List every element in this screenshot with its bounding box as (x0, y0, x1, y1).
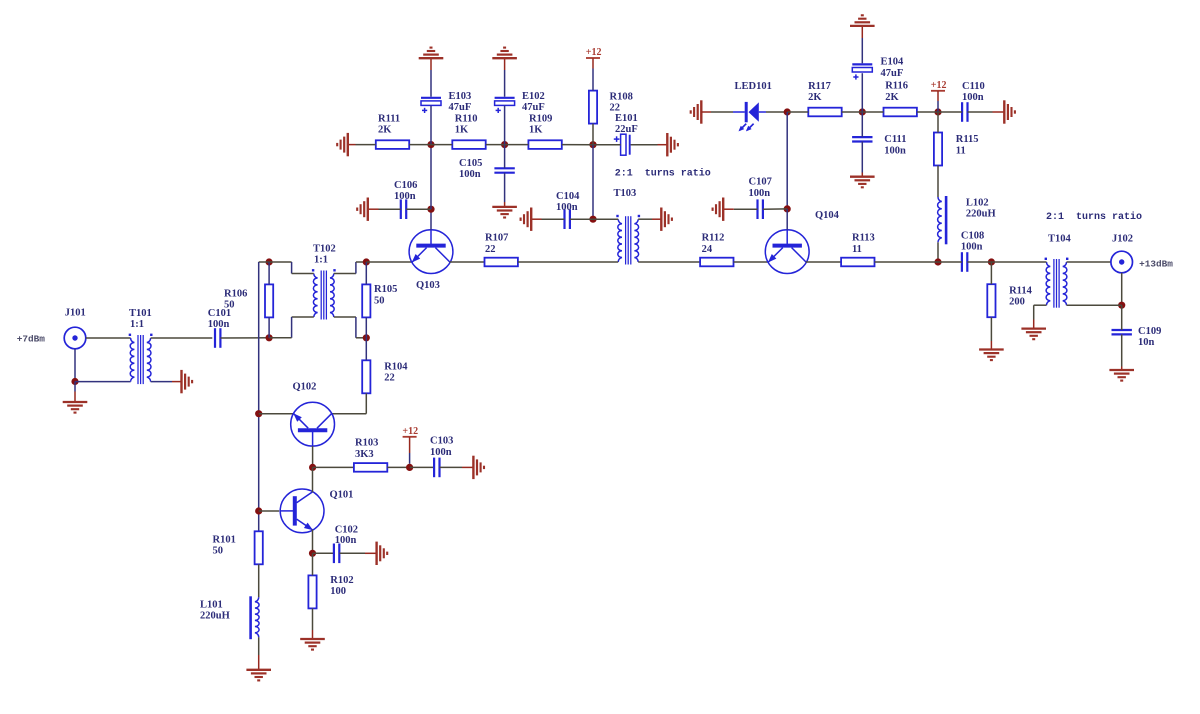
ground ground left of C104 (521, 208, 532, 231)
svg-text:L101: L101 (200, 599, 223, 610)
svg-text:C102: C102 (335, 525, 358, 536)
ground ground below C111 (850, 177, 875, 188)
wire node O to R117 (787, 111, 808, 113)
svg-text:Q101: Q101 (330, 490, 354, 501)
ground ground below C109 (1109, 370, 1134, 381)
junction node D (363, 334, 370, 341)
svg-text:R117: R117 (808, 81, 831, 92)
junction node S (934, 258, 941, 265)
svg-text:T103: T103 (614, 188, 637, 199)
wire C108 to node T (967, 261, 991, 263)
capacitor C101 (208, 308, 231, 348)
wire T101 bottom left (75, 381, 131, 383)
ground ground left of C107 (713, 198, 724, 221)
resistor R114 (987, 284, 1032, 317)
ground ground below T104 (1021, 329, 1046, 340)
ground ground right of C110 (1004, 100, 1015, 123)
wire R117 to node P (842, 111, 863, 113)
svg-text:C110: C110 (962, 81, 985, 92)
transistor Q104 (765, 210, 839, 274)
wire C105 to ground (504, 173, 506, 207)
ground ground above E102 (492, 48, 517, 59)
wire C109 to ground (1121, 334, 1123, 370)
wire node T to R114 (990, 262, 992, 284)
junction node T (988, 258, 995, 265)
wire node D to R104 (365, 338, 367, 361)
wire R113 to node S (875, 261, 939, 263)
resistor R117 (808, 81, 842, 116)
svg-text:100n: 100n (430, 447, 452, 458)
capacitor C106 (394, 180, 417, 219)
svg-text:100: 100 (330, 586, 346, 597)
svg-text:R110: R110 (455, 113, 478, 124)
svg-text:E104: E104 (881, 57, 905, 68)
wire +12 to R108 (592, 58, 594, 90)
connector J102 (1111, 233, 1133, 272)
junction node E (255, 410, 262, 417)
svg-text:1:1: 1:1 (314, 255, 328, 266)
wire E101 to ground (631, 144, 668, 146)
svg-text:R115: R115 (956, 134, 979, 145)
svg-text:R116: R116 (885, 81, 908, 92)
capacitor C107 (749, 177, 772, 219)
resistor R111 (376, 113, 409, 149)
svg-text:R108: R108 (610, 92, 633, 103)
wire E102 up (504, 58, 506, 96)
junction node G (406, 464, 413, 471)
wire Q102 base down (312, 446, 314, 467)
wire R111 to node K (409, 144, 431, 146)
ground ground below R114 (979, 350, 1004, 361)
svg-text:C108: C108 (961, 230, 984, 241)
resistor R109 (528, 113, 561, 149)
svg-text:Q103: Q103 (416, 280, 440, 291)
wire node O down (786, 112, 788, 209)
junction node C (363, 258, 370, 265)
svg-text:100n: 100n (884, 145, 906, 156)
svg-text:200: 200 (1009, 297, 1025, 308)
svg-text:100n: 100n (962, 92, 984, 103)
power +12 (586, 47, 602, 58)
svg-text:3K3: 3K3 (355, 449, 374, 460)
junction node A (266, 334, 273, 341)
capacitor C111 (852, 134, 906, 156)
svg-text:2:1 turns ratio: 2:1 turns ratio (615, 168, 711, 180)
svg-text:Q104: Q104 (815, 210, 840, 221)
svg-text:LED101: LED101 (735, 81, 772, 92)
svg-text:47uF: 47uF (522, 102, 545, 113)
wire T104 to J102 (1067, 261, 1111, 263)
capacitor E101 (614, 113, 638, 155)
svg-text:1K: 1K (455, 125, 469, 136)
wire node K to R110 (431, 144, 452, 146)
svg-text:11: 11 (956, 145, 966, 156)
wire node L to C105 (504, 145, 506, 169)
svg-text:R103: R103 (355, 438, 378, 449)
svg-text:R112: R112 (702, 233, 725, 244)
wire bus down (259, 262, 269, 531)
wire T102 pin3 (269, 317, 314, 338)
resistor R103 (354, 438, 387, 472)
svg-text:100n: 100n (749, 188, 771, 199)
transistor Q101 (280, 489, 353, 533)
transformer T102 (312, 243, 336, 319)
resistor R107 (485, 233, 518, 267)
ground ground below J101 (63, 402, 88, 413)
capacitor C104 (556, 191, 580, 229)
wire E104 down (861, 73, 863, 112)
resistor R108 (589, 91, 633, 124)
LED LED101 (735, 81, 772, 132)
svg-text:R111: R111 (378, 113, 400, 124)
svg-text:50: 50 (374, 295, 385, 306)
ground ground below C105 (492, 207, 517, 218)
svg-text:R109: R109 (529, 113, 552, 124)
wire node P to R116 (862, 111, 883, 113)
label +7dBm (17, 334, 46, 345)
ground ground above E103 (419, 48, 444, 59)
ground ground right of C103 (473, 456, 484, 479)
svg-text:R104: R104 (384, 361, 408, 372)
svg-text:1:1: 1:1 (130, 319, 144, 330)
wire node R to Q104 base (786, 209, 788, 230)
resistor R116 (884, 81, 917, 117)
capacitor C105 (459, 158, 515, 180)
wire R109 to node M (562, 144, 593, 146)
capacitor C103 (430, 436, 453, 478)
svg-text:22uF: 22uF (615, 124, 638, 135)
wire node G to C103 (410, 466, 435, 468)
svg-text:T102: T102 (313, 243, 336, 254)
wire T101 to C101 (151, 337, 213, 339)
svg-text:50: 50 (213, 546, 224, 557)
transformer T101 (129, 308, 153, 384)
svg-text:100n: 100n (961, 242, 983, 253)
wire C107 to ground (723, 208, 757, 210)
wire R116 to node Q (917, 111, 938, 113)
wire C106 to node J (406, 208, 431, 210)
svg-text:Q102: Q102 (293, 382, 317, 393)
connector J101 (64, 308, 86, 349)
wire C111 to ground (861, 142, 863, 177)
ground ground left of R111 (337, 133, 348, 156)
capacitor C102 (334, 525, 358, 564)
ground ground right of E101 (667, 133, 678, 156)
transformer T104 (1045, 233, 1072, 307)
svg-text:100n: 100n (335, 535, 357, 546)
wire R114 to ground (990, 317, 992, 349)
svg-text:C111: C111 (884, 134, 906, 145)
wire E102 down (504, 106, 506, 145)
wire T102 pin4 (334, 317, 367, 338)
wire Q104 collector to R113 (806, 261, 841, 263)
wire Q103 collector to R107 (450, 261, 485, 263)
junction node B (266, 258, 273, 265)
power +12 (402, 426, 418, 437)
svg-text:+7dBm: +7dBm (17, 334, 46, 345)
svg-text:+12: +12 (402, 426, 418, 437)
wire R101 to L101 (258, 564, 260, 597)
wire R105 top (365, 262, 367, 284)
junction node H (255, 507, 262, 514)
capacitor E104 (852, 57, 904, 80)
junction node F (309, 464, 316, 471)
wire R108 to node M (592, 124, 594, 145)
svg-text:E101: E101 (615, 113, 638, 124)
wire J102 down (1121, 273, 1123, 305)
svg-text:100n: 100n (556, 202, 578, 213)
junction J101 ground node (71, 378, 78, 385)
wire C103 to ground (440, 466, 474, 468)
resistor R113 (841, 233, 875, 267)
wire T102 pin2 (334, 262, 367, 274)
inductor L102 (938, 196, 996, 244)
svg-text:+13dBm: +13dBm (1139, 258, 1173, 269)
svg-text:C107: C107 (749, 177, 772, 188)
resistor R110 (452, 113, 485, 149)
svg-text:50: 50 (224, 300, 235, 311)
svg-text:2K: 2K (378, 125, 392, 136)
svg-text:100n: 100n (394, 191, 416, 202)
wire C104 to ground (531, 218, 564, 220)
junction node U (1118, 302, 1125, 309)
svg-text:220uH: 220uH (966, 209, 996, 220)
svg-text:C109: C109 (1138, 326, 1161, 337)
junction node L (501, 141, 508, 148)
power +12 (931, 80, 947, 91)
svg-text:2K: 2K (885, 92, 899, 103)
label turns ratio 1 (615, 168, 711, 180)
junction node K (427, 141, 434, 148)
junction node R (784, 205, 791, 212)
wire node Q to R115 (937, 112, 939, 133)
ground ground left of C106 (357, 198, 368, 221)
resistor R104 (362, 360, 408, 393)
svg-text:R102: R102 (330, 575, 353, 586)
ground ground below L101 (246, 670, 271, 681)
junction node N (589, 216, 596, 223)
wire R106 bottom (268, 317, 270, 337)
svg-text:E103: E103 (449, 91, 472, 102)
wire R110 to node L (486, 144, 505, 146)
resistor R115 (934, 133, 979, 166)
wire T103 to R112 (638, 261, 700, 263)
wire T104 pin4 to node U (1067, 304, 1122, 306)
wire node S to C108 (938, 261, 962, 263)
wire E103 down (430, 106, 432, 145)
junction node P (859, 108, 866, 115)
wire Q103 base up (430, 209, 432, 230)
wire node N to T103 (593, 218, 618, 220)
wire E104 up (861, 26, 863, 63)
junction node O (784, 108, 791, 115)
wire J101 to T101 (86, 337, 131, 339)
wire T101 bottom right to ground (151, 381, 182, 383)
wire node F to R103 (313, 466, 354, 468)
transistor Q102 (291, 382, 335, 447)
svg-text:C106: C106 (394, 180, 417, 191)
svg-text:R106: R106 (224, 288, 247, 299)
wire +12 to node Q (937, 91, 939, 112)
wire ground to LED (701, 111, 745, 113)
svg-text:47uF: 47uF (449, 102, 472, 113)
wire R112 to Q104 (734, 261, 769, 263)
ground ground left of LED (691, 100, 702, 123)
wire R103 to +12 node (387, 466, 409, 468)
svg-text:T101: T101 (129, 308, 152, 319)
svg-text:R107: R107 (485, 233, 508, 244)
wire node M to E101 (593, 144, 621, 146)
wire C101 to node A (220, 337, 269, 339)
wire C107 to node R (763, 208, 787, 210)
wire C106 to ground (368, 208, 401, 210)
inductor L101 (200, 596, 259, 639)
ground ground above E104 (850, 15, 875, 26)
wire J101 pin 2 down (74, 349, 76, 382)
wire +12 stub (409, 437, 411, 464)
svg-text:47uF: 47uF (881, 68, 904, 79)
label +13dBm (1139, 258, 1173, 269)
svg-text:24: 24 (702, 244, 713, 255)
svg-text:R114: R114 (1009, 285, 1033, 296)
wire node P to C111 (861, 112, 863, 137)
transistor Q103 (409, 230, 453, 291)
svg-text:J101: J101 (65, 308, 86, 319)
wire L102 down (937, 242, 939, 262)
wire node J up (430, 145, 432, 210)
wire node I to R102 (312, 553, 314, 575)
wire ground to R111 (348, 144, 376, 146)
svg-text:1K: 1K (529, 125, 543, 136)
svg-text:R101: R101 (213, 534, 236, 545)
svg-text:C103: C103 (430, 436, 453, 447)
junction node I (309, 550, 316, 557)
wire node L to R109 (505, 144, 529, 146)
wire L101 to ground (258, 637, 260, 670)
wire R105 bottom (365, 317, 367, 337)
wire node U to C109 (1121, 305, 1123, 330)
wire C110 to ground (968, 111, 1005, 113)
transformer T103 (614, 188, 641, 265)
wire C102 to ground (339, 552, 376, 554)
ground ground right of C102 (377, 542, 388, 565)
resistor R112 (700, 233, 733, 267)
wire node E to Q102 emitter (259, 413, 294, 415)
capacitor C108 (961, 230, 984, 271)
svg-text:2K: 2K (808, 92, 822, 103)
wire T103 to ground (638, 218, 661, 220)
ground ground right of T101 (182, 370, 193, 393)
wire node I to C102 (313, 552, 334, 554)
wire node H to Q101 base (259, 510, 280, 512)
svg-text:E102: E102 (522, 91, 545, 102)
svg-text:22: 22 (485, 244, 496, 255)
capacitor E102 (495, 91, 545, 113)
svg-text:220uH: 220uH (200, 611, 230, 622)
label turns ratio 2 (1046, 211, 1142, 223)
svg-text:C105: C105 (459, 158, 482, 169)
resistor R105 (362, 284, 397, 317)
svg-text:10n: 10n (1138, 337, 1155, 348)
svg-text:+12: +12 (586, 47, 602, 58)
resistor R101 (213, 531, 263, 564)
wire T102 pin1 (269, 262, 314, 274)
wire node Q to C110 (938, 111, 962, 113)
junction node Q (934, 108, 941, 115)
svg-text:R113: R113 (852, 233, 875, 244)
wire node T to T104 (991, 261, 1046, 263)
wire R102 to ground (312, 608, 314, 639)
svg-text:L102: L102 (966, 197, 989, 208)
svg-text:100n: 100n (208, 319, 230, 330)
junction node J (427, 206, 434, 213)
svg-text:+12: +12 (931, 80, 947, 91)
wire node C to Q103 (366, 261, 412, 263)
wire C104 to node N (570, 218, 593, 220)
svg-text:C104: C104 (556, 191, 580, 202)
capacitor E103 (421, 91, 471, 113)
wire R107 to T103 (518, 261, 618, 263)
svg-text:100n: 100n (459, 169, 481, 180)
wire R104 to Q102 collector (331, 393, 366, 413)
ground ground right of T103 (661, 208, 672, 231)
wire R115 to L102 (937, 166, 939, 198)
wire Q101 emitter (312, 530, 314, 554)
capacitor C109 (1112, 326, 1162, 348)
svg-text:2:1 turns ratio: 2:1 turns ratio (1046, 211, 1142, 223)
wire node M down (592, 145, 594, 220)
wire E103 up (430, 58, 432, 96)
svg-text:T104: T104 (1048, 233, 1072, 244)
wire R106 top (268, 262, 270, 284)
svg-text:22: 22 (384, 373, 395, 384)
resistor R102 (308, 575, 353, 609)
wire LED to node O (759, 111, 787, 113)
svg-text:11: 11 (852, 244, 862, 255)
wire junction to ground (74, 382, 76, 402)
svg-text:J102: J102 (1112, 233, 1133, 244)
wire Q101 collector (312, 467, 314, 492)
capacitor C110 (962, 81, 985, 122)
svg-text:R105: R105 (374, 284, 397, 295)
wire T104 pin3 to ground (1034, 305, 1047, 328)
resistor R106 (224, 284, 273, 317)
junction node M (589, 141, 596, 148)
ground ground below R102 (300, 639, 325, 650)
